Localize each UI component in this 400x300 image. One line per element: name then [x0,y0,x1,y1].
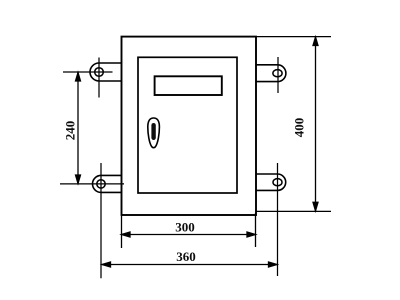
mounting ear top-right center line [277,57,279,93]
dimension line 400 [313,37,318,211]
mounting ear bottom-right hole [273,179,282,186]
mounting ear top-right hole [273,70,282,77]
mounting ear bottom-left center lines [60,163,124,278]
enclosure outer body [122,37,257,215]
svg-text:240: 240 [63,121,78,141]
extension line bottom for 400 [256,210,331,212]
dimension line 360 [102,262,277,267]
svg-text:360: 360 [176,249,196,264]
mounting ear top-left hole [95,68,104,77]
keyhole outline [148,118,160,148]
mounting ear top-left tab [90,63,122,81]
mounting ear top-right tab [256,65,286,82]
dimension line 300 [122,232,256,237]
mounting ear bottom-left tab [93,175,122,192]
mounting ear bottom-left hole [97,180,105,188]
keyhole slot [151,123,155,140]
extension line top for 400 [256,36,331,38]
mounting ear bottom-right center line [277,163,279,276]
extension lines for 300 [122,213,256,248]
svg-text:300: 300 [175,220,195,235]
dimension line 240 [76,73,81,184]
display window [155,76,222,95]
svg-text:400: 400 [292,118,307,138]
mounting ear top-left center lines [63,58,113,98]
enclosure door [138,57,237,193]
mounting ear bottom-right tab [256,174,286,190]
